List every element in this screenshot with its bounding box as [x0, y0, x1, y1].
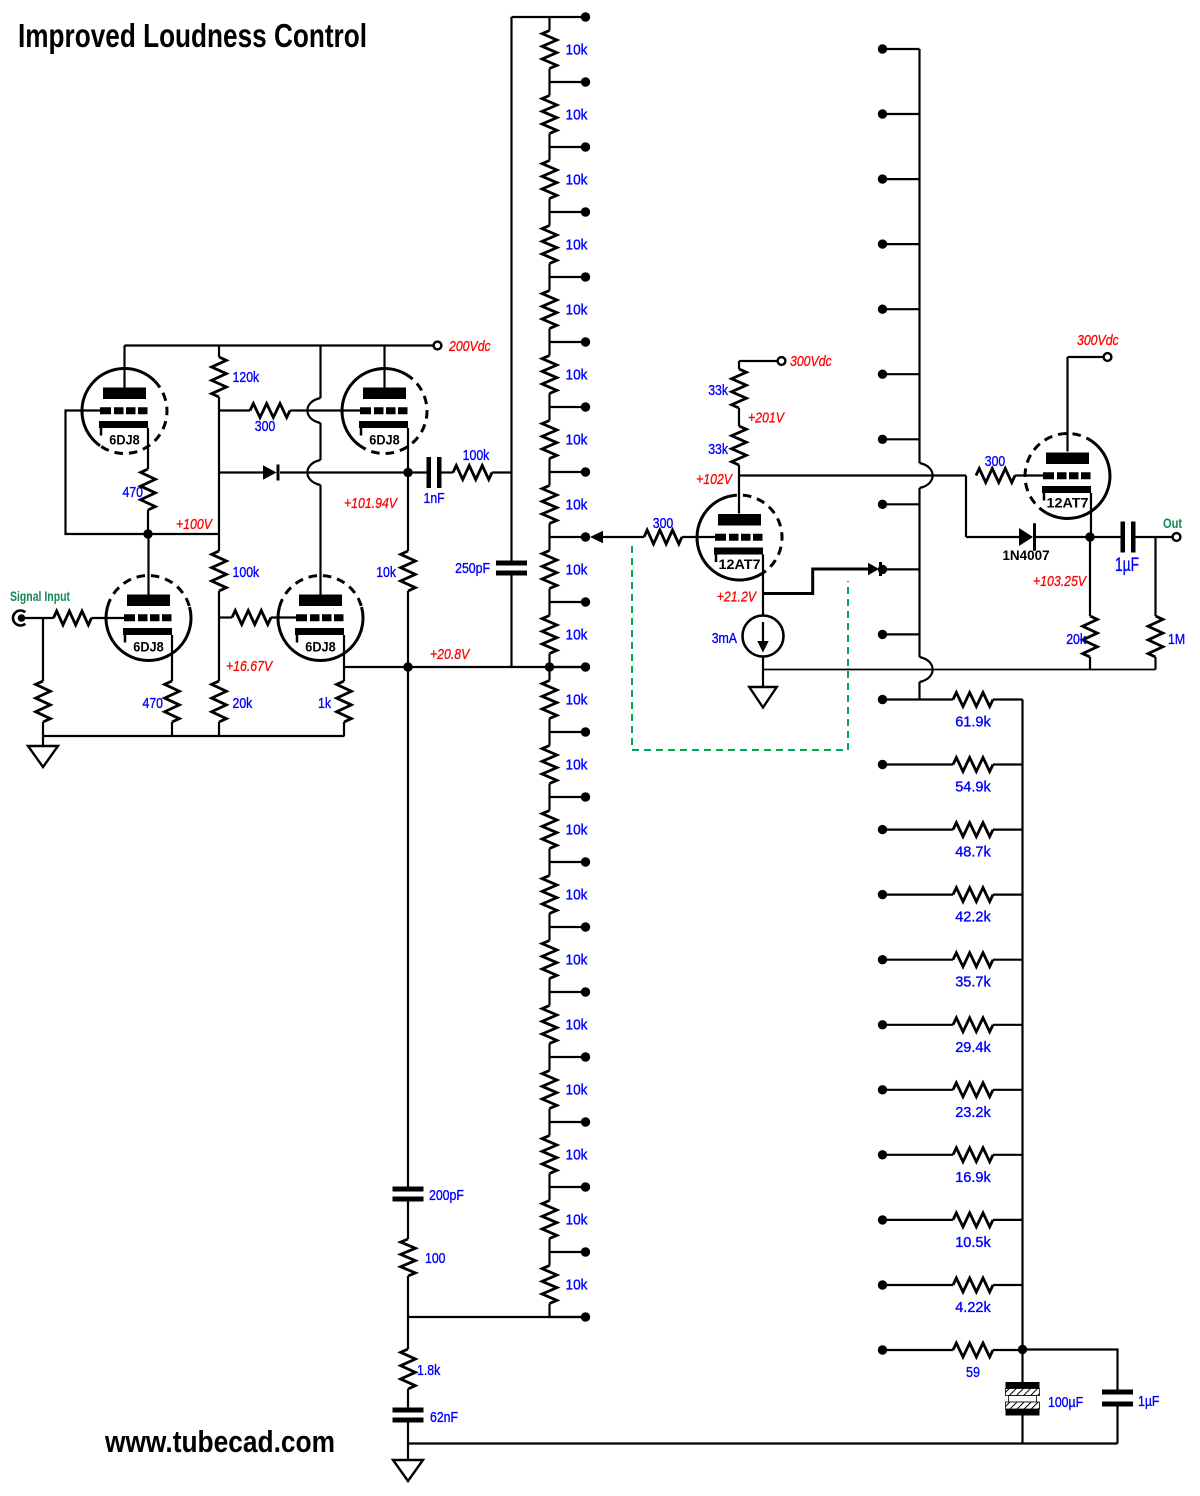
wire rail to 100uF: [1021, 1350, 1023, 1383]
resistor 35.7k rung: [878, 953, 1023, 967]
wire V4 plate line lower: [319, 485, 321, 595]
resistor 33k upper: [732, 369, 747, 408]
node U2 cathode: [1085, 532, 1094, 541]
node bus contact 1: [878, 109, 920, 118]
svg-text:10k: 10k: [566, 562, 588, 579]
node ladder tap 7: [550, 467, 591, 476]
node ladder tap 12: [550, 792, 591, 801]
label 470 V1: [123, 484, 144, 501]
node ladder tap 17: [550, 1117, 591, 1126]
wire 100 to 1.8k: [407, 1276, 409, 1349]
resistor 10k ladder #13: [542, 797, 557, 862]
wire V4 plate line mid: [319, 423, 321, 460]
label 10k ladder #16: [566, 1017, 588, 1034]
svg-text:10k: 10k: [566, 952, 588, 969]
svg-text:1µF: 1µF: [1115, 555, 1139, 576]
label 100: [425, 1250, 446, 1267]
svg-text:+201V: +201V: [748, 410, 786, 427]
label 54.9k: [955, 779, 991, 796]
resistor 10k ladder #4: [542, 212, 557, 277]
wire mid column: [407, 667, 409, 1187]
wire 20k to gnd rail: [218, 722, 220, 736]
label 33k upper: [708, 382, 728, 399]
resistor 300 U2 grid: [976, 469, 1043, 483]
node bus contact 3: [878, 239, 920, 248]
svg-text:100: 100: [425, 1250, 446, 1267]
wire ground rail left: [43, 735, 345, 737]
label +20.8V: [430, 646, 471, 663]
node bus contact 9: [878, 630, 920, 639]
label 10.5k: [955, 1234, 991, 1251]
resistor 1.8k: [401, 1349, 416, 1389]
resistor 10k ladder #3: [542, 147, 557, 212]
wire +20.8V to ladder: [408, 666, 582, 668]
label +21.2V: [717, 589, 758, 606]
wire shunt to gnd: [42, 722, 44, 736]
svg-text:10k: 10k: [566, 757, 588, 774]
resistor 10.5k rung: [878, 1213, 1023, 1227]
resistor 20k bias: [212, 681, 227, 722]
wire right rail: [1021, 700, 1023, 1350]
wire 470 to node: [147, 510, 149, 534]
wire V4 plate line upper: [319, 346, 321, 399]
svg-text:10k: 10k: [566, 107, 588, 124]
svg-text:470: 470: [123, 484, 144, 501]
label 10k ladder #9: [566, 562, 588, 579]
wire U2 cathode lead: [1090, 493, 1092, 537]
svg-text:61.9k: 61.9k: [955, 714, 991, 731]
hop V4 line over 300 wire: [307, 398, 320, 423]
node ladder tap 18: [550, 1182, 591, 1191]
node ladder tap 2: [550, 142, 591, 151]
svg-text:100k: 100k: [233, 564, 260, 581]
svg-text:300Vdc: 300Vdc: [790, 353, 832, 370]
svg-text:6DJ8: 6DJ8: [369, 433, 400, 448]
label 10k ladder #12: [566, 757, 588, 774]
resistor input shunt: [36, 681, 51, 722]
label 120k: [233, 369, 260, 386]
svg-text:+100V: +100V: [176, 516, 214, 533]
label 4.22k: [955, 1299, 991, 1316]
svg-text:+16.67V: +16.67V: [226, 658, 274, 675]
node ladder tap 6: [550, 402, 591, 411]
capacitor 100uF: [1006, 1382, 1040, 1444]
resistor 300 V1-V2: [219, 404, 360, 418]
svg-text:10k: 10k: [566, 1147, 588, 1164]
terminal Out: [1173, 533, 1181, 541]
node bus contact 5: [878, 370, 920, 379]
gang link dashed: [632, 546, 848, 750]
svg-text:+103.25V: +103.25V: [1033, 573, 1088, 590]
node +101.94V: [403, 468, 412, 477]
tube V4 6DJ8: [278, 576, 363, 661]
label +16.67V: [226, 658, 274, 675]
resistor 470 V3: [165, 681, 180, 722]
node ladder tap 0: [581, 12, 590, 21]
svg-text:10k: 10k: [566, 432, 588, 449]
svg-text:1N4007: 1N4007: [1002, 548, 1049, 563]
label +102V: [696, 471, 734, 488]
label 29.4k: [955, 1039, 991, 1056]
svg-text:10k: 10k: [566, 302, 588, 319]
svg-text:10k: 10k: [566, 367, 588, 384]
current source 3mA: [743, 616, 784, 657]
node ladder tap 20: [550, 1312, 591, 1321]
svg-text:6DJ8: 6DJ8: [109, 433, 140, 448]
svg-text:10k: 10k: [376, 564, 396, 581]
wire 1N4007 riser: [966, 476, 1019, 538]
node ladder tap 1: [550, 77, 591, 86]
label 10k ladder #19: [566, 1212, 588, 1229]
node +20.8V: [403, 662, 412, 671]
label 10k ladder #5: [566, 302, 588, 319]
wire V3 cathode lead: [171, 635, 173, 681]
wire CCS to ground: [762, 657, 764, 688]
wire 200Vdc rail: [125, 344, 434, 346]
svg-text:10k: 10k: [566, 692, 588, 709]
wire V1 plate lead: [123, 346, 125, 388]
svg-text:+102V: +102V: [696, 471, 734, 488]
svg-text:54.9k: 54.9k: [955, 779, 991, 796]
resistor 4.22k rung: [878, 1278, 1023, 1292]
label 10k ladder #4: [566, 237, 588, 254]
label 200Vdc: [448, 338, 491, 355]
ground CCS: [749, 687, 777, 708]
wire 1k to gnd: [343, 722, 345, 736]
resistor 470 V1 cathode: [141, 469, 156, 510]
label 10k ladder #11: [566, 692, 588, 709]
svg-text:120k: 120k: [233, 369, 260, 386]
resistor 10k ladder #7: [542, 407, 557, 472]
node right rail bottom: [1018, 1345, 1027, 1354]
svg-text:35.7k: 35.7k: [955, 974, 991, 991]
label 42.2k: [955, 909, 991, 926]
svg-text:10k: 10k: [566, 497, 588, 514]
svg-text:12AT7: 12AT7: [1047, 496, 1089, 511]
resistor 10k ladder #12: [542, 732, 557, 797]
node bus contact 6: [878, 435, 920, 444]
label 300 U1: [653, 515, 674, 532]
resistor 23.2k rung: [878, 1083, 1023, 1097]
svg-text:10k: 10k: [566, 1277, 588, 1294]
label Out: [1163, 516, 1183, 531]
resistor 16.9k rung: [878, 1148, 1023, 1162]
wiper arrow left ladder: [590, 531, 603, 543]
svg-text:100k: 100k: [463, 447, 490, 464]
label 3mA: [712, 630, 737, 647]
wire 470 V3 to gnd: [171, 722, 173, 736]
svg-text:10k: 10k: [566, 172, 588, 189]
svg-text:10k: 10k: [566, 42, 588, 59]
label 300Vdc U2: [1077, 332, 1119, 349]
wire ground return to right: [763, 669, 1156, 671]
svg-text:+101.94V: +101.94V: [344, 495, 399, 512]
resistor 10k ladder #18: [542, 1122, 557, 1187]
resistor 100k coupling: [453, 466, 512, 480]
svg-text:10k: 10k: [566, 822, 588, 839]
resistor 10k ladder #17: [542, 1057, 557, 1122]
svg-text:250pF: 250pF: [455, 560, 490, 577]
wire bus lower: [918, 682, 920, 700]
svg-text:10k: 10k: [566, 237, 588, 254]
label 23.2k: [955, 1104, 991, 1121]
node ladder tap 15: [550, 987, 591, 996]
wire ladder top: [512, 16, 582, 18]
svg-text:300: 300: [255, 418, 276, 435]
svg-text:+21.2V: +21.2V: [717, 589, 758, 606]
wire V1 grid to +100V node: [66, 411, 145, 535]
label 1nF: [424, 490, 445, 507]
node +100V: [143, 529, 152, 538]
hop bus over +102V wire: [920, 463, 933, 488]
node ladder tap 11: [550, 727, 591, 736]
svg-text:12AT7: 12AT7: [719, 557, 761, 572]
resistor 20k U2: [1083, 537, 1098, 670]
resistor 48.7k rung: [878, 823, 1023, 837]
label 16.9k: [955, 1169, 991, 1186]
label 1k V4: [318, 695, 331, 712]
resistor 100: [401, 1239, 416, 1276]
node bus contact 4: [878, 305, 920, 314]
connector signal input: [13, 611, 25, 626]
node bus contact 7: [878, 500, 920, 509]
svg-text:33k: 33k: [708, 382, 728, 399]
svg-text:10k: 10k: [566, 627, 588, 644]
label 470 V3: [143, 695, 164, 712]
svg-text:200pF: 200pF: [429, 1187, 464, 1204]
resistor 10k ladder #14: [542, 862, 557, 927]
svg-text:10k: 10k: [566, 1017, 588, 1034]
wire V1 cathode lead: [147, 428, 149, 469]
tube U1 12AT7: [697, 495, 782, 580]
label 250pF: [455, 560, 490, 577]
resistor grid stopper V4: [219, 611, 296, 625]
node ladder tap 13: [550, 857, 591, 866]
resistor 10k ladder #6: [542, 342, 557, 407]
label 10k ladder #3: [566, 172, 588, 189]
svg-text:Improved Loudness Control: Improved Loudness Control: [18, 17, 367, 54]
label +100V: [176, 516, 214, 533]
svg-text:23.2k: 23.2k: [955, 1104, 991, 1121]
svg-text:470: 470: [143, 695, 164, 712]
label 100k coupling: [463, 447, 490, 464]
ground bottom: [393, 1460, 423, 1481]
title text: [18, 17, 367, 54]
resistor 10k ladder #11: [542, 667, 557, 732]
wire bus upper: [918, 49, 920, 463]
svg-text:1µF: 1µF: [1138, 1393, 1159, 1410]
resistor 29.4k rung: [878, 1018, 1023, 1032]
wire U1 cathode to CCS: [762, 593, 764, 616]
wire wiper to 300: [603, 536, 644, 538]
svg-text:300Vdc: 300Vdc: [1077, 332, 1119, 349]
label 100uF: [1048, 1394, 1083, 1411]
svg-text:10k: 10k: [566, 1082, 588, 1099]
resistor 54.9k rung: [878, 758, 1023, 772]
wire 120k to 100k column: [218, 397, 220, 551]
hop bus over ground wire: [920, 657, 933, 682]
resistor 100k bias: [212, 551, 227, 591]
svg-text:1nF: 1nF: [424, 490, 445, 507]
wire bottom rail: [408, 1442, 1118, 1444]
svg-text:3mA: 3mA: [712, 630, 737, 647]
svg-text:59: 59: [966, 1364, 980, 1381]
diode D2 to bus: [868, 562, 882, 576]
svg-text:42.2k: 42.2k: [955, 909, 991, 926]
label 10k ladder #18: [566, 1147, 588, 1164]
svg-text:48.7k: 48.7k: [955, 844, 991, 861]
node bus contact 8: [878, 565, 920, 574]
wire input shunt drop: [42, 618, 44, 681]
node ladder tap 4: [550, 272, 591, 281]
label 20k bias: [233, 695, 253, 712]
label 33k lower: [708, 441, 728, 458]
svg-text:300: 300: [653, 515, 674, 532]
capacitor 1uF bottom: [1102, 1390, 1133, 1444]
wire 1uF branch top: [1023, 1350, 1118, 1390]
label 1N4007: [1002, 548, 1049, 563]
wire +102V to U2: [739, 474, 966, 476]
node ladder tap 3: [550, 207, 591, 216]
resistor 10k ladder #1: [542, 17, 557, 82]
label 10k ladder #2: [566, 107, 588, 124]
wire U1 cathode lead: [762, 555, 764, 594]
node ladder tap 16: [550, 1052, 591, 1061]
label +201V: [748, 410, 786, 427]
svg-text:10.5k: 10.5k: [955, 1234, 991, 1251]
label 61.9k: [955, 714, 991, 731]
label 300 U2: [985, 453, 1006, 470]
svg-text:300: 300: [985, 453, 1006, 470]
resistor 59 rung: [878, 1343, 1023, 1357]
capacitor 200pF: [393, 1187, 424, 1240]
svg-text:4.22k: 4.22k: [955, 1299, 991, 1316]
label 10k ladder #20: [566, 1277, 588, 1294]
label 10k ladder #7: [566, 432, 588, 449]
resistor 300 U1 grid: [644, 530, 715, 544]
resistor 61.9k rung: [878, 693, 1023, 707]
resistor 10k ladder #10: [542, 602, 557, 667]
label 200pF: [429, 1187, 464, 1204]
wire cathode to diode riser: [763, 569, 868, 594]
label 100k bias: [233, 564, 260, 581]
svg-text:6DJ8: 6DJ8: [133, 640, 164, 655]
wire 33k to U1 plate: [738, 465, 740, 514]
label 10k ladder #13: [566, 822, 588, 839]
label 59: [966, 1364, 980, 1381]
resistor 42.2k rung: [878, 888, 1023, 902]
label 10k ladder #17: [566, 1082, 588, 1099]
tube V3 6DJ8: [106, 576, 191, 661]
node ladder tap 9: [550, 597, 591, 606]
svg-text:Out: Out: [1163, 516, 1183, 531]
node bus contact 0: [878, 44, 920, 53]
label +101.94V: [344, 495, 399, 512]
resistor 10k ladder #20: [542, 1252, 557, 1317]
tube V1 6DJ8: [82, 368, 167, 453]
capacitor 62nF: [393, 1389, 424, 1460]
resistor 10k ladder #8: [542, 472, 557, 537]
resistor 120k: [212, 346, 227, 398]
label 1uF bottom: [1138, 1393, 1159, 1410]
terminal 300Vdc U2: [1104, 353, 1112, 361]
label Signal Input: [10, 589, 70, 604]
label 300 V1-V2: [255, 418, 276, 435]
label 48.7k: [955, 844, 991, 861]
wire bus middle: [918, 488, 920, 657]
footer www.tubecad.com: [104, 1424, 335, 1459]
hop V4 line over diode wire: [307, 460, 320, 485]
resistor 1M: [1148, 537, 1163, 670]
capacitor 1nF: [408, 457, 453, 488]
wire V2 cathode lead: [407, 428, 409, 473]
svg-text:10k: 10k: [566, 1212, 588, 1229]
resistor 10k ladder #2: [542, 82, 557, 147]
capacitor 1uF output: [1090, 522, 1173, 553]
svg-text:20k: 20k: [233, 695, 253, 712]
label 62nF: [430, 1409, 458, 1426]
node ladder tap 5: [550, 337, 591, 346]
svg-text:+20.8V: +20.8V: [430, 646, 471, 663]
resistor 1k V4: [337, 681, 352, 722]
wire +20.8V cathode branch: [344, 666, 404, 668]
node bus contact 2: [878, 174, 920, 183]
label 1uF output: [1115, 555, 1139, 576]
node ladder tap 19: [550, 1247, 591, 1256]
svg-text:1k: 1k: [318, 695, 331, 712]
wire 100k to 20k: [218, 591, 220, 681]
resistor 10k mid: [401, 473, 416, 668]
wire 33k junction: [738, 408, 740, 426]
node ladder tap 14: [550, 922, 591, 931]
node ladder tap 10: [550, 662, 591, 671]
resistor 10k ladder #5: [542, 277, 557, 342]
label 1.8k: [417, 1362, 441, 1379]
svg-text:20k: 20k: [1066, 631, 1086, 648]
label 10k ladder #15: [566, 952, 588, 969]
svg-text:6DJ8: 6DJ8: [305, 640, 336, 655]
label 10k ladder #14: [566, 887, 588, 904]
diode D1: [219, 465, 404, 481]
tube U2 12AT7: [1025, 434, 1110, 519]
ground input: [28, 736, 58, 767]
label 10k mid: [376, 564, 396, 581]
svg-text:200Vdc: 200Vdc: [448, 338, 491, 355]
svg-text:29.4k: 29.4k: [955, 1039, 991, 1056]
svg-text:100µF: 100µF: [1048, 1394, 1083, 1411]
terminal 200Vdc: [434, 342, 442, 350]
label 20k U2: [1066, 631, 1086, 648]
wire 300Vdc to 33k: [739, 361, 778, 369]
label 10k ladder #8: [566, 497, 588, 514]
resistor 10k ladder #9: [542, 537, 557, 602]
svg-text:1.8k: 1.8k: [417, 1362, 441, 1379]
diode 1N4007: [1019, 523, 1086, 551]
label 10k ladder #1: [566, 42, 588, 59]
wire +100V node to 100k: [148, 533, 219, 535]
label +103.25V: [1033, 573, 1088, 590]
svg-text:33k: 33k: [708, 441, 728, 458]
wire V3 plate lead: [147, 534, 149, 595]
resistor 33k lower: [732, 426, 747, 465]
resistor 10k ladder #19: [542, 1187, 557, 1252]
svg-text:16.9k: 16.9k: [955, 1169, 991, 1186]
svg-text:62nF: 62nF: [430, 1409, 458, 1426]
label 10k ladder #6: [566, 367, 588, 384]
resistor 10k ladder #15: [542, 927, 557, 992]
capacitor 250pF: [496, 561, 527, 668]
resistor grid stopper input: [54, 611, 125, 625]
